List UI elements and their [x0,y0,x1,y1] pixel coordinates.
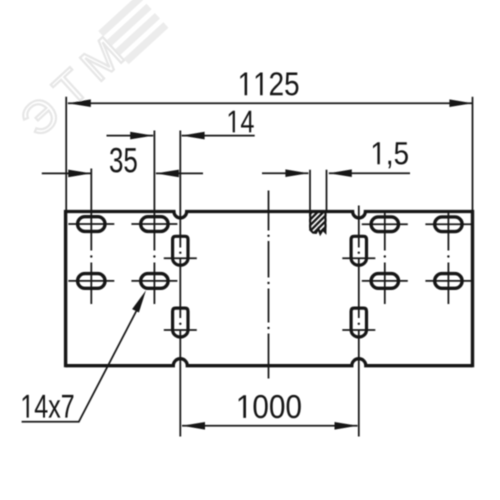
arrowhead 1,5 right (points left) [329,169,352,177]
plate left edge [64,210,67,367]
arrowhead 35 left (points right) [68,170,91,178]
oblong slot B1 (left col B row 1) [141,217,168,232]
centerline dot col C [384,255,386,257]
oblong slot C1 (right col C row 1) [371,217,398,232]
centerline col C vertical dash-dot [384,212,386,305]
oblong slot A1 (left col A row 1) [78,217,105,232]
centerline keyhole R2 horizontal [342,329,375,331]
centerline row2 horizontal col C [362,280,408,282]
centerline row2 horizontal col D [425,280,471,282]
plate top edge with notches [66,212,473,218]
oblong slot D2 (right col D row 2) [435,274,462,289]
section hatch piece (1,5 thickness) [285,209,344,239]
centerline plate middle x=268.5 [268,191,270,379]
dimension text 1125 [240,72,298,95]
arrowhead 1125 right [449,99,472,107]
dimension line 1000 [182,425,358,427]
extension line right edge (1125) [472,97,474,210]
centerline dot col D [447,255,449,257]
dimension text 1,5 [373,142,408,168]
centerline row1 horizontal col A [68,223,114,225]
arrowhead leader 14x7 [132,290,146,312]
extension lines 1,5 thickness [310,170,327,210]
keyhole slot L2 (x=180.3 lower) [173,308,188,337]
centerline keyhole R1 horizontal [342,257,375,259]
centerline dot col B [153,255,155,257]
arrowhead 1000 left [182,422,205,430]
oblong slot A2 (left col A row 2) [78,274,105,289]
dimension text 35 [110,148,137,173]
dimension line 14 right piece [182,135,255,137]
centerline dots notch line right [358,252,360,254]
keyhole slot R1 (x=358.8 upper) [351,236,366,265]
dimension line 1125 [68,102,473,104]
plate bottom edge with notches [66,359,473,366]
plate right edge [471,210,474,367]
centerline notch line right x=358.8 [358,206,360,437]
oblong slot B2 (left col B row 2) [141,274,168,289]
centerline col A vertical dash-dot [90,169,92,305]
keyhole slot R2 (x=358.8 lower) [351,308,366,337]
centerline notch line left x=180.3 [179,131,181,437]
centerline keyhole L2 horizontal [164,329,197,331]
arrowhead 1000 right [335,422,358,430]
centerline keyhole L1 horizontal [164,257,197,259]
oblong slot D1 (right col D row 1) [435,217,462,232]
arrowhead 35 right (points left) [156,170,179,178]
dimension line 35 left piece [42,172,91,174]
centerline row2 horizontal col B [131,280,177,282]
centerline row1 horizontal col B [131,223,177,225]
centerline col B vertical dash-dot [153,131,155,305]
arrowhead 14 left (points right) [130,132,153,140]
watermark ЭТМ emblem stripes [98,0,168,64]
dimension line 35 right piece [156,172,203,174]
arrowhead 14 right (points left) [182,132,205,140]
extension line left edge (1125) [65,97,67,210]
dimension line 1,5 left piece [262,172,308,174]
centerline row2 horizontal col A [68,280,114,282]
keyhole slot L1 (x=180.3 upper) [173,236,188,265]
watermark ЭТМ letter М [80,37,124,81]
label text 14x7 [23,395,74,418]
arrowhead 1,5 left (points right) [285,169,308,177]
watermark ЭТМ letter Э [19,94,62,138]
centerline dots notch line left [179,252,181,254]
watermark ЭТМ letter Т [51,67,92,108]
centerline row1 horizontal col C [362,223,408,225]
centerline dots plate middle [267,235,269,237]
dimension text 14 [229,111,254,133]
leader line 14x7 [22,303,141,422]
arrowhead 1125 left [68,99,91,107]
dimension text 1000 [239,395,301,418]
oblong slot C2 (right col C row 2) [371,274,398,289]
centerline col D vertical dash-dot [447,212,449,305]
dimension line 1,5 right piece [329,172,410,174]
centerline dot col A [90,255,92,257]
centerline row1 horizontal col D [425,223,471,225]
dimension line 14 left piece [107,135,154,137]
